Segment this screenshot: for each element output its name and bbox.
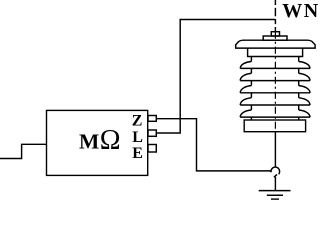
arrester shed 4 rim <box>240 104 310 106</box>
svg-text:L: L <box>132 129 143 146</box>
arrester shed 5 rim <box>240 116 310 118</box>
arrester shed 1 hanger stubs <box>251 57 298 62</box>
terminal E <box>148 145 156 153</box>
svg-text:M: M <box>79 129 99 153</box>
wire from terminal L to busbar WN <box>156 20 275 134</box>
arrester shed 1 skirt <box>240 62 310 69</box>
arrester shed 5 skirt <box>240 110 310 117</box>
arrester shed 2 skirt <box>240 73 310 80</box>
arrester top shed <box>236 40 315 48</box>
wire left test lead <box>0 144 47 158</box>
arrester shed 3 rim <box>240 92 310 94</box>
arrester neck <box>263 36 287 40</box>
pin label Z <box>132 113 143 130</box>
svg-text:E: E <box>132 145 143 162</box>
wire arrester base to link <box>274 132 276 167</box>
wire link to ground <box>274 177 276 191</box>
terminal Z <box>148 116 156 122</box>
arrester top cap <box>271 32 279 36</box>
megohmmeter MΩ <box>47 110 148 175</box>
arrester base stubs <box>251 117 298 120</box>
arrester shed 3 skirt <box>240 86 310 93</box>
disconnect link <box>271 167 280 177</box>
arrester base flange <box>244 120 305 132</box>
svg-text:Z: Z <box>132 113 143 130</box>
arrester shed 5 hanger stubs <box>251 105 298 110</box>
busbar WN (dashed line, upper) <box>274 0 276 32</box>
svg-text:WN: WN <box>282 0 319 22</box>
arrester shed 2 hanger stubs <box>251 68 298 73</box>
arrester body section 1 <box>248 48 303 56</box>
label MΩ <box>79 125 121 156</box>
arrester shed 4 hanger stubs <box>251 93 298 98</box>
label WN <box>282 0 319 22</box>
svg-text:Ω: Ω <box>100 125 121 156</box>
arrester shed 1 rim <box>240 67 310 69</box>
ground <box>259 190 291 192</box>
wire from terminal Z to ground link <box>156 119 271 171</box>
pin label E <box>132 145 143 162</box>
arrester shed 2 rim <box>240 80 310 82</box>
arrester shed 4 skirt <box>240 98 310 105</box>
terminal L <box>148 130 156 136</box>
arrester shed 3 hanger stubs <box>251 81 298 86</box>
pin label L <box>132 129 143 146</box>
center line of arrester (dash-dot) <box>274 32 276 132</box>
